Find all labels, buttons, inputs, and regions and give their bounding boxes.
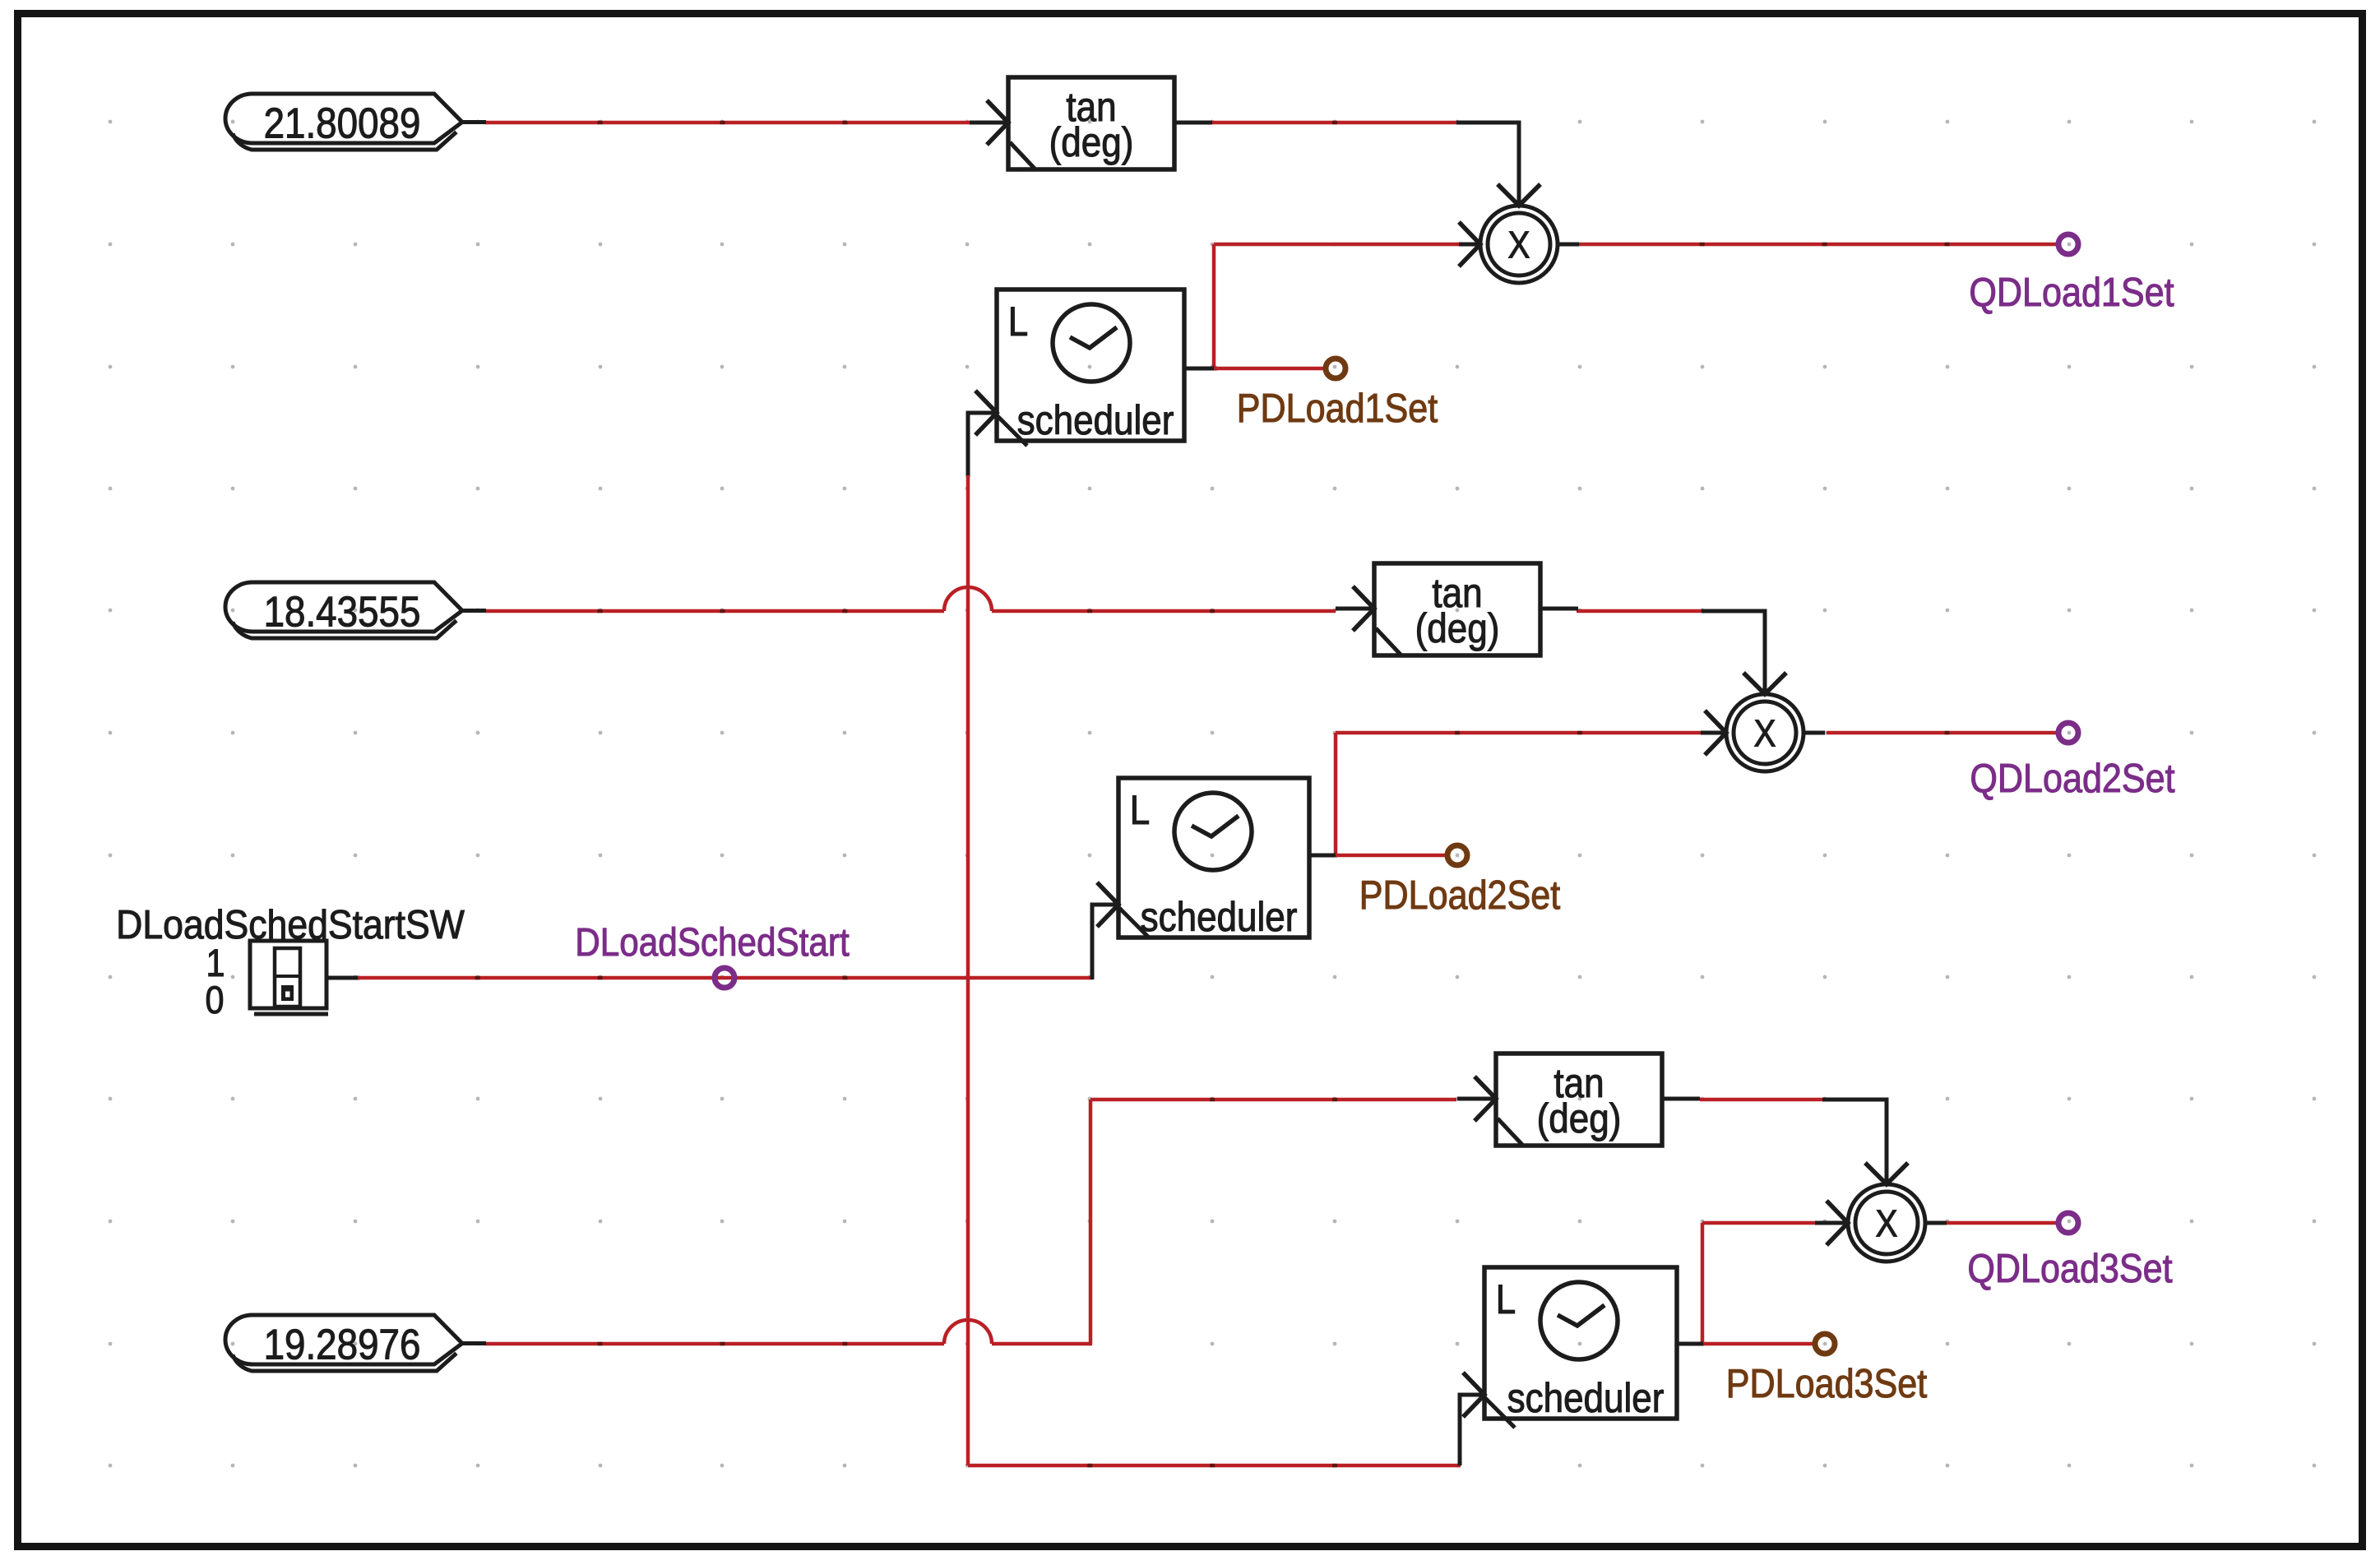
wire xyxy=(1309,733,1726,855)
constant C1 21.80089 xyxy=(225,94,486,150)
wire xyxy=(968,413,997,1465)
constant C2 18.43555 xyxy=(225,582,486,638)
scheduler block U4 xyxy=(975,289,1211,446)
wire xyxy=(1677,1223,1848,1344)
node QDLoad2Set xyxy=(1970,723,2174,801)
tan(deg) block U3 xyxy=(1457,1053,1700,1146)
svg-text:X: X xyxy=(1754,713,1776,755)
svg-text:scheduler: scheduler xyxy=(1141,893,1298,939)
node PDLoad2Set xyxy=(1359,845,1561,918)
wire xyxy=(1946,1221,2057,1225)
scheduler block U6 xyxy=(1463,1267,1703,1428)
svg-text:21.80089: 21.80089 xyxy=(264,100,421,147)
svg-text:DLoadSchedStart: DLoadSchedStart xyxy=(575,919,850,964)
svg-text:L: L xyxy=(1496,1276,1516,1322)
svg-text:L: L xyxy=(1130,786,1150,832)
multiplier M2 xyxy=(1705,673,1825,771)
tan(deg) block U1 xyxy=(970,77,1212,170)
wire xyxy=(485,587,1336,611)
svg-text:X: X xyxy=(1508,225,1530,266)
node PDLoad1Set xyxy=(1237,359,1438,431)
svg-text:X: X xyxy=(1876,1203,1898,1245)
svg-text:L: L xyxy=(1008,298,1028,344)
wire xyxy=(1700,1100,1887,1186)
wire xyxy=(1214,244,1480,368)
svg-text:scheduler: scheduler xyxy=(1507,1374,1665,1420)
svg-text:0: 0 xyxy=(205,979,224,1022)
svg-text:PDLoad1Set: PDLoad1Set xyxy=(1237,385,1438,430)
svg-text:(deg): (deg) xyxy=(1049,118,1134,164)
wire xyxy=(1577,243,2057,247)
wire xyxy=(1336,854,1446,858)
svg-text:PDLoad2Set: PDLoad2Set xyxy=(1359,872,1561,917)
svg-text:QDLoad2Set: QDLoad2Set xyxy=(1970,755,2174,800)
node QDLoad1Set xyxy=(1969,234,2174,315)
wire xyxy=(1184,367,1323,371)
wire xyxy=(326,905,1118,979)
wire xyxy=(485,121,970,125)
svg-text:scheduler: scheduler xyxy=(1017,396,1174,442)
wire xyxy=(1827,731,2057,735)
wire xyxy=(1702,1342,1813,1346)
svg-text:PDLoad3Set: PDLoad3Set xyxy=(1726,1360,1928,1405)
wire xyxy=(968,1395,1484,1465)
svg-text:QDLoad1Set: QDLoad1Set xyxy=(1969,269,2174,314)
svg-text:(deg): (deg) xyxy=(1415,604,1500,651)
node DLoadSchedStart xyxy=(575,919,850,988)
tan(deg) block U2 xyxy=(1336,563,1578,656)
svg-text:QDLoad3Set: QDLoad3Set xyxy=(1967,1245,2172,1290)
node PDLoad3Set xyxy=(1726,1334,1928,1406)
wire xyxy=(1212,123,1519,207)
wire xyxy=(1577,611,1765,696)
svg-text:(deg): (deg) xyxy=(1537,1095,1622,1141)
multiplier M1 xyxy=(1459,184,1579,283)
multiplier M3 xyxy=(1827,1163,1947,1262)
node QDLoad3Set xyxy=(1967,1213,2172,1291)
wire xyxy=(485,1100,1456,1344)
scheduler block U5 xyxy=(1097,778,1336,940)
svg-text:18.43555: 18.43555 xyxy=(264,589,421,636)
constant C3 19.28976 xyxy=(225,1315,486,1371)
switch DLoadSchedStartSW xyxy=(116,902,465,1022)
svg-text:19.28976: 19.28976 xyxy=(264,1322,421,1368)
